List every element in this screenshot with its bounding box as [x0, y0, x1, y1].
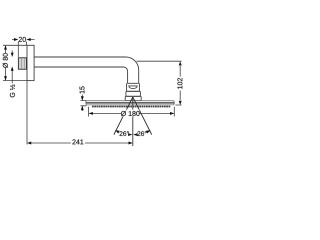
shower head disc: [86, 101, 175, 105]
dim 241 line: [32, 142, 129, 144]
dim G1/2 arrows: [11, 53, 14, 57]
shower arm: [34, 57, 139, 83]
dim 102 ext lines: [137, 61, 182, 105]
dim 241 ext line: [26, 81, 28, 145]
text G1/2: [10, 85, 15, 98]
dim O80 ext lines: [3, 45, 28, 80]
dim 20 arrows: [14, 38, 18, 41]
spray center line: [132, 97, 134, 146]
angle dim arrows center: [128, 133, 132, 136]
text 15: [80, 86, 85, 93]
dim 15 line: [81, 95, 83, 112]
spray nozzle band: [92, 106, 171, 108]
dim 102 arrows: [179, 61, 182, 65]
dim 241 arrows: [27, 142, 31, 145]
wall plate (escutcheon): [27, 45, 34, 80]
dim O180 line: [89, 112, 174, 114]
cone base upper: [126, 91, 140, 96]
cone base lower: [125, 96, 141, 100]
arm sleeve nut: [127, 83, 140, 91]
dim O80 arrows: [4, 45, 7, 49]
text O180: [121, 111, 140, 116]
text 20: [19, 37, 26, 42]
text 26 right: [137, 131, 146, 136]
dim O180 arrows: [89, 112, 93, 115]
angle dim arrow left: [115, 130, 119, 133]
dim 102 line: [179, 66, 181, 100]
text 26 left: [120, 131, 129, 136]
disc interior line: [86, 102, 174, 104]
dim 20 ext lines: [18, 42, 26, 58]
dim 15 arrows: [81, 96, 84, 100]
thread knurl G1/2: [18, 58, 26, 69]
dim O180 ext lines: [89, 107, 175, 117]
dim O80 line: [5, 46, 7, 80]
text 241: [72, 139, 83, 144]
text 102: [177, 78, 182, 89]
spray lines: [114, 97, 152, 135]
O180 text backing: [121, 110, 139, 117]
ball joint: [129, 86, 138, 89]
angle dim arrow right: [146, 130, 150, 133]
dim 15 ext lines: [81, 101, 87, 106]
dim G1/2 line: [11, 51, 13, 84]
text O80: [3, 53, 8, 68]
dim 20 lines: [12, 39, 35, 41]
